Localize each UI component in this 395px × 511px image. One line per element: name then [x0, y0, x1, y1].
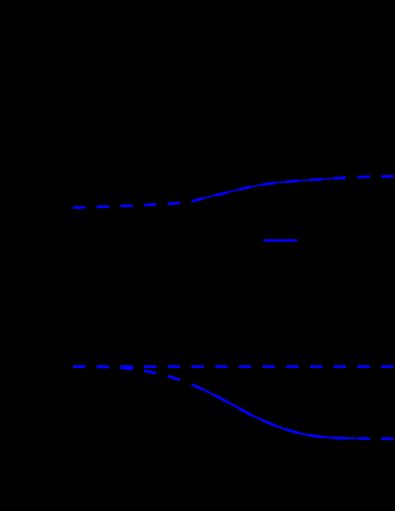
bottom dashed model curve: [73, 367, 393, 439]
bottom horizontal dashed reference line: [73, 365, 393, 368]
top solid data curve: [204, 178, 343, 198]
top dashed model curve: [73, 176, 393, 207]
legend line sample: [264, 239, 298, 242]
bottom solid data curve: [204, 390, 356, 438]
